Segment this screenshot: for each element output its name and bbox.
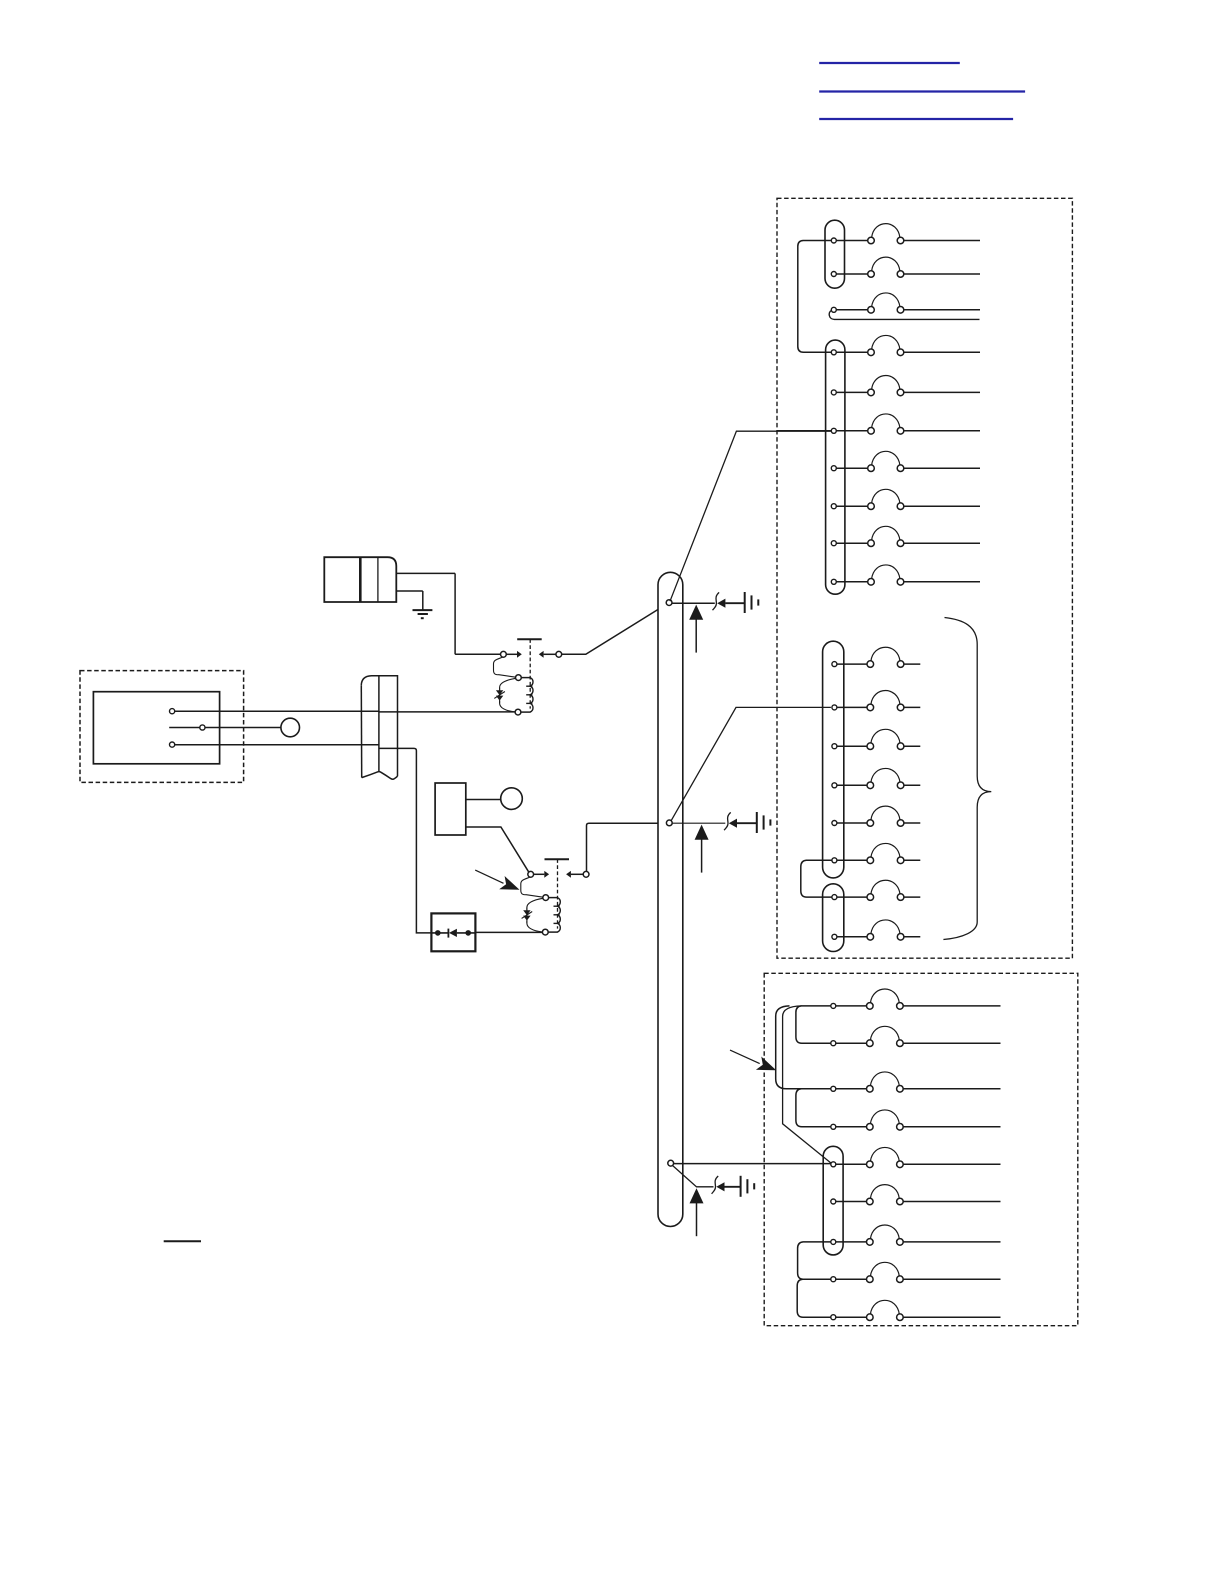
battery BT1 — [324, 557, 396, 602]
relay K2 contact terminal right — [583, 871, 589, 877]
hyperlink underline 1 — [819, 62, 960, 64]
junction box 2 terminal row 1 — [831, 989, 1001, 1009]
relay K1 coil suppressor — [494, 678, 515, 712]
wire cable W1 to diode CR1 — [379, 748, 431, 933]
control unit inner module A1 — [93, 692, 219, 764]
bus bracket row1 to row5 — [783, 1006, 831, 1163]
junction box 1 terminal row 7 — [831, 451, 980, 471]
wire splice SP1 to ground — [725, 602, 744, 604]
junction box 2 terminal row 6 — [831, 1185, 1001, 1205]
jumper row1-row2 — [796, 1006, 831, 1043]
diode assembly CR1 box — [431, 913, 475, 951]
wire diode CR1 to relay K2 coil — [475, 931, 542, 933]
relay K2 armature linkage — [521, 877, 543, 897]
terminal E3 — [170, 742, 175, 747]
junction box 1 terminal row 9 — [831, 526, 980, 546]
wire splice SP2 to ground — [737, 822, 757, 824]
junction box 1 lower terminal row 4 — [832, 768, 920, 788]
relay K2 core tick 2 — [554, 914, 560, 916]
wire coil bottom to core K1 — [521, 711, 531, 713]
wire E2 to indicator — [205, 727, 281, 729]
relay K2 core tick 1 — [554, 905, 560, 907]
relay K2 coil suppressor — [522, 898, 543, 932]
relay K2 moving contact arrow left — [544, 871, 549, 878]
wire E1 into cable W1 — [175, 710, 379, 712]
relay K1 armature linkage — [494, 657, 516, 677]
relay K1 core tick 2 — [526, 694, 532, 696]
connector P4 shell — [823, 884, 844, 952]
wire node A to splice SP1 — [672, 602, 715, 604]
cable W2 splice node C — [668, 1160, 674, 1166]
wire battery to ground (vertical) — [422, 591, 424, 610]
sender unit B2 — [435, 783, 466, 835]
relay K1 contact terminal left — [501, 651, 507, 657]
connector P3 shell — [823, 641, 844, 878]
wire coil top to core K2 — [549, 897, 558, 899]
bus bracket row1 to row3 — [776, 1006, 802, 1089]
junction box 1 terminal row 5 — [831, 376, 980, 396]
wire battery to relay K1 contact (vertical) — [454, 573, 456, 654]
wire node B to splice SP2 — [672, 822, 725, 824]
relay K1 coil winding — [530, 678, 533, 712]
junction box 1 lower terminal row 7 — [832, 880, 920, 900]
disconnect splice SP2 — [724, 812, 737, 830]
junction box 1 terminal row 6 — [777, 414, 980, 434]
junction box 1 terminal row 2 — [831, 257, 980, 277]
relay K1 frame bar — [517, 638, 542, 640]
chassis ground G2 — [745, 592, 759, 613]
relay K2 coil winding — [558, 898, 561, 932]
relay K1 contact lead left — [506, 653, 517, 655]
relay K1 moving contact arrow right — [539, 651, 544, 658]
wire node C to connector row — [674, 1163, 831, 1165]
junction box 2 terminal row 9 — [831, 1300, 1001, 1320]
grouping brace — [943, 618, 991, 940]
relay K1 core tick 3 — [526, 702, 532, 704]
wire node B to connector row (riser) — [671, 707, 831, 821]
relay K1 contact lead right — [544, 653, 556, 655]
relay K2 contact terminal left — [528, 871, 534, 877]
relay K2 coil terminal bottom — [542, 929, 548, 935]
junction box 1 terminal row 8 — [831, 489, 980, 509]
wire relay K1 contact to cable W2 tap A — [562, 604, 667, 654]
junction box dashed enclosure 2 — [764, 973, 1078, 1325]
wire splice SP3 to ground — [725, 1186, 741, 1188]
junction box 2 terminal row 5 — [831, 1147, 1001, 1167]
pointer arrow at splice SP1 — [689, 605, 703, 653]
relay K1 moving contact arrow left — [517, 651, 522, 658]
wire sender to gauge — [466, 799, 501, 801]
wire E3 into cable W1 — [175, 744, 379, 746]
jumper link P3 to P4 — [801, 860, 832, 897]
relay K2 contact lead left — [534, 873, 545, 875]
reference note line — [164, 1240, 201, 1242]
relay K1 core tick 1 — [526, 685, 532, 687]
junction box 1 terminal row 10 — [831, 565, 980, 585]
junction box 2 terminal row 4 — [831, 1110, 1001, 1130]
junction box 2 terminal row 8 — [831, 1262, 1001, 1282]
relay K2 contact lead right — [571, 873, 583, 875]
pointer arrow at splice SP3 — [690, 1188, 704, 1236]
junction box 1 lower terminal row 8 — [832, 920, 920, 940]
jumper row7-row8 — [798, 1242, 831, 1279]
wire coil top to core K1 — [521, 677, 530, 679]
callout arrow to relay K2 — [475, 870, 519, 890]
wire cable W1 to relay K1 coil — [379, 711, 515, 713]
cable assembly W2 — [658, 572, 683, 1226]
wire to relay K2 contact — [528, 873, 531, 875]
connector P5 shell — [823, 1146, 843, 1255]
junction box dashed enclosure 1 — [777, 198, 1072, 958]
wire relay K2 contact to cable W2 tap B — [587, 823, 667, 871]
connector P1 shell — [825, 220, 845, 288]
relay K1 coil terminal top — [516, 675, 522, 681]
terminal E1 — [170, 709, 175, 714]
diode CR1 — [431, 929, 475, 938]
callout arrow to junction box 2 bus — [730, 1050, 776, 1070]
junction box 1 lower terminal row 5 — [832, 806, 920, 826]
relay K1 coil terminal bottom — [515, 709, 521, 715]
wire inside module to E2 — [169, 727, 200, 729]
junction box 1 terminal row 3 — [829, 293, 980, 319]
junction box 2 terminal row 2 — [831, 1026, 1001, 1046]
wire node C to splice SP3 — [673, 1166, 714, 1187]
wire battery to ground (horizontal) — [396, 590, 423, 592]
chassis ground G4 — [741, 1176, 755, 1197]
junction box 1 lower terminal row 6 — [832, 843, 920, 863]
relay K2 actuator dashed link — [557, 859, 559, 928]
jumper row8-row9 — [797, 1279, 831, 1317]
jumper row3-row4 — [796, 1089, 831, 1127]
junction box 1 lower terminal row 2 — [832, 691, 920, 711]
junction box 1 lower terminal row 3 — [832, 729, 920, 749]
disconnect splice SP1 — [713, 592, 726, 610]
control unit dashed enclosure — [80, 671, 244, 783]
ground GND1 — [413, 610, 433, 618]
relay K2 core tick 3 — [554, 922, 560, 924]
relay K1 contact terminal right — [556, 651, 562, 657]
hyperlink underline 2 — [819, 90, 1025, 92]
wire coil bottom to core K2 — [548, 931, 558, 933]
wire battery to relay K1 contact (horizontal) — [396, 572, 455, 574]
jumper bus link P1 to P2 — [798, 241, 832, 353]
terminal E2 — [200, 725, 205, 730]
relay K2 coil terminal top — [543, 895, 549, 901]
junction box 1 terminal row 1 — [831, 224, 980, 244]
cable W2 splice node B — [666, 820, 672, 826]
wire to relay K1 contact — [455, 653, 500, 655]
hyperlink underline 3 — [819, 118, 1013, 120]
connector P2 shell — [826, 340, 845, 594]
relay K2 moving contact arrow right — [566, 871, 571, 878]
junction box 2 terminal row 3 — [831, 1072, 1001, 1092]
junction box 1 terminal row 4 — [831, 335, 980, 355]
wire node A to connector row (riser) — [670, 431, 831, 601]
indicator lamp DS1 — [281, 718, 300, 737]
pointer arrow at splice SP2 — [695, 825, 709, 873]
relay K1 actuator dashed link — [529, 639, 531, 708]
cable W2 splice node A — [666, 600, 672, 606]
cable assembly flag W1 — [361, 676, 397, 779]
wire sender to relay K2 contact — [466, 827, 529, 872]
junction box 1 lower terminal row 1 — [832, 647, 920, 667]
chassis ground G3 — [757, 812, 771, 833]
junction box 2 terminal row 7 — [831, 1225, 1001, 1245]
relay K2 frame bar — [545, 858, 570, 860]
disconnect splice SP3 — [712, 1176, 725, 1194]
gauge M1 — [501, 788, 523, 810]
